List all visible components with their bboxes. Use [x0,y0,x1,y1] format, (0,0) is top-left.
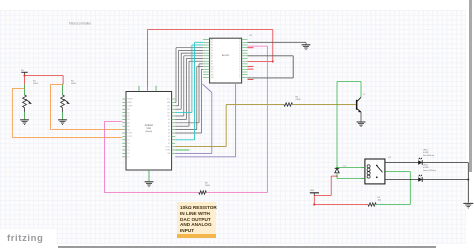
svg-text:10kΩ: 10kΩ [71,83,76,85]
svg-text:P6: P6 [211,56,213,58]
svg-text:Green (570nm): Green (570nm) [423,169,436,172]
svg-text:D5: D5 [168,133,170,135]
svg-text:Red (633nm): Red (633nm) [423,155,434,157]
svg-text:Microcontroller: Microcontroller [69,22,92,26]
svg-text:P12: P12 [211,72,214,74]
svg-text:GND: GND [310,190,315,192]
svg-text:U1: U1 [249,35,253,37]
svg-text:D5: D5 [128,150,130,152]
svg-text:LED2: LED2 [423,165,428,167]
svg-text:D10: D10 [167,116,170,118]
svg-text:(Rev3): (Rev3) [146,131,153,133]
svg-text:P11: P11 [211,69,214,71]
svg-text:P10: P10 [211,66,214,68]
svg-text:P8: P8 [211,61,213,63]
svg-text:IOREF: IOREF [128,106,133,108]
svg-text:1kΩ: 1kΩ [378,200,382,202]
svg-text:P1: P1 [211,42,213,44]
svg-text:RESET: RESET [128,99,133,101]
svg-text:220Ω: 220Ω [296,99,301,101]
svg-text:D6: D6 [128,153,130,155]
svg-text:D7: D7 [128,157,130,159]
svg-text:10kΩ: 10kΩ [33,83,38,85]
svg-text:D11: D11 [167,112,170,114]
svg-text:P14: P14 [211,77,214,79]
svg-text:P4: P4 [211,50,213,52]
svg-text:P13: P13 [211,74,214,76]
svg-text:T1: T1 [363,94,366,96]
svg-text:P7: P7 [211,58,213,60]
svg-text:D9: D9 [168,119,170,121]
svg-text:D8: D8 [168,123,170,125]
svg-text:P2: P2 [211,45,213,47]
svg-text:SCL: SCL [167,99,170,101]
svg-text:0.01W: 0.01W [423,152,429,154]
svg-text:P5: P5 [211,53,213,55]
svg-text:P3: P3 [211,47,213,49]
svg-text:Uno: Uno [147,127,152,130]
svg-text:D6: D6 [168,129,170,131]
svg-text:K1: K1 [389,157,392,159]
svg-text:D12: D12 [167,109,170,111]
svg-text:D7: D7 [168,126,170,128]
svg-text:D4: D4 [168,136,170,138]
svg-text:AD5593: AD5593 [222,54,230,57]
svg-text:D4: D4 [128,146,130,148]
svg-text:D2: D2 [168,143,170,145]
svg-text:D3: D3 [128,143,130,145]
svg-text:10kΩ: 10kΩ [205,185,210,187]
svg-text:D3: D3 [168,140,170,142]
svg-text:D2: D2 [128,140,130,142]
svg-text:D13: D13 [167,106,170,108]
svg-text:5V: 5V [21,70,24,72]
svg-text:LED1: LED1 [423,150,428,152]
svg-text:P0: P0 [211,39,213,41]
svg-text:P9: P9 [211,64,213,66]
svg-text:0.01W: 0.01W [423,167,429,169]
